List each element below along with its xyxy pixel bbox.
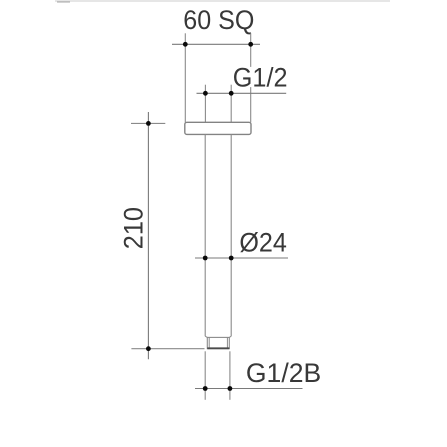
dimension line 210 vertical: [147, 112, 149, 359]
dimension line diameter 24: [195, 257, 288, 259]
thread step right chamfer: [229, 336, 231, 337]
dimension dot right diameter 24: [229, 256, 234, 261]
dimension dot left 60 SQ: [183, 42, 188, 47]
pipe left edge: [204, 134, 206, 336]
extension tick bottom 210: [131, 348, 204, 350]
thread body outline: [207, 337, 229, 348]
dimension line G1/2: [197, 92, 287, 94]
pipe right edge: [230, 134, 232, 336]
extension tick top 210: [131, 122, 165, 124]
svg-text:G1/2: G1/2: [233, 63, 288, 93]
extension line right G1/2: [230, 85, 232, 123]
thread relief line left: [208, 337, 210, 348]
faint cropped border line at top edge: [55, 0, 390, 2]
thread relief line right: [226, 337, 228, 348]
faint border line darker start segment: [57, 1, 70, 3]
dimension dot top 210: [146, 121, 151, 126]
svg-text:G1/2B: G1/2B: [246, 358, 321, 388]
svg-text:60 SQ: 60 SQ: [183, 5, 254, 35]
dimension dot right G1/2: [229, 91, 234, 96]
extension line left G1/2B: [204, 351, 206, 400]
dimension dot left diameter 24: [203, 256, 208, 261]
extension line right 60 SQ upper: [250, 33, 252, 67]
extension line left G1/2: [204, 85, 206, 123]
dimension dot left G1/2B: [203, 386, 208, 391]
dimension dot right G1/2B: [228, 386, 233, 391]
dimension dot bottom 210: [146, 346, 151, 351]
extension line right 60 SQ lower: [250, 87, 252, 122]
ceiling flange outline: [185, 122, 251, 134]
extension line left 60 SQ: [184, 33, 186, 122]
dimension dot right 60 SQ: [248, 42, 253, 47]
thread step left chamfer: [205, 336, 207, 337]
thread end cap: [207, 347, 229, 349]
dimension line G1/2B: [195, 388, 303, 390]
extension line right G1/2B: [229, 351, 231, 400]
dimension dot left G1/2: [203, 91, 208, 96]
svg-text:Ø24: Ø24: [239, 228, 287, 258]
svg-text:210: 210: [119, 207, 149, 249]
dimension line 60 SQ: [172, 43, 260, 45]
